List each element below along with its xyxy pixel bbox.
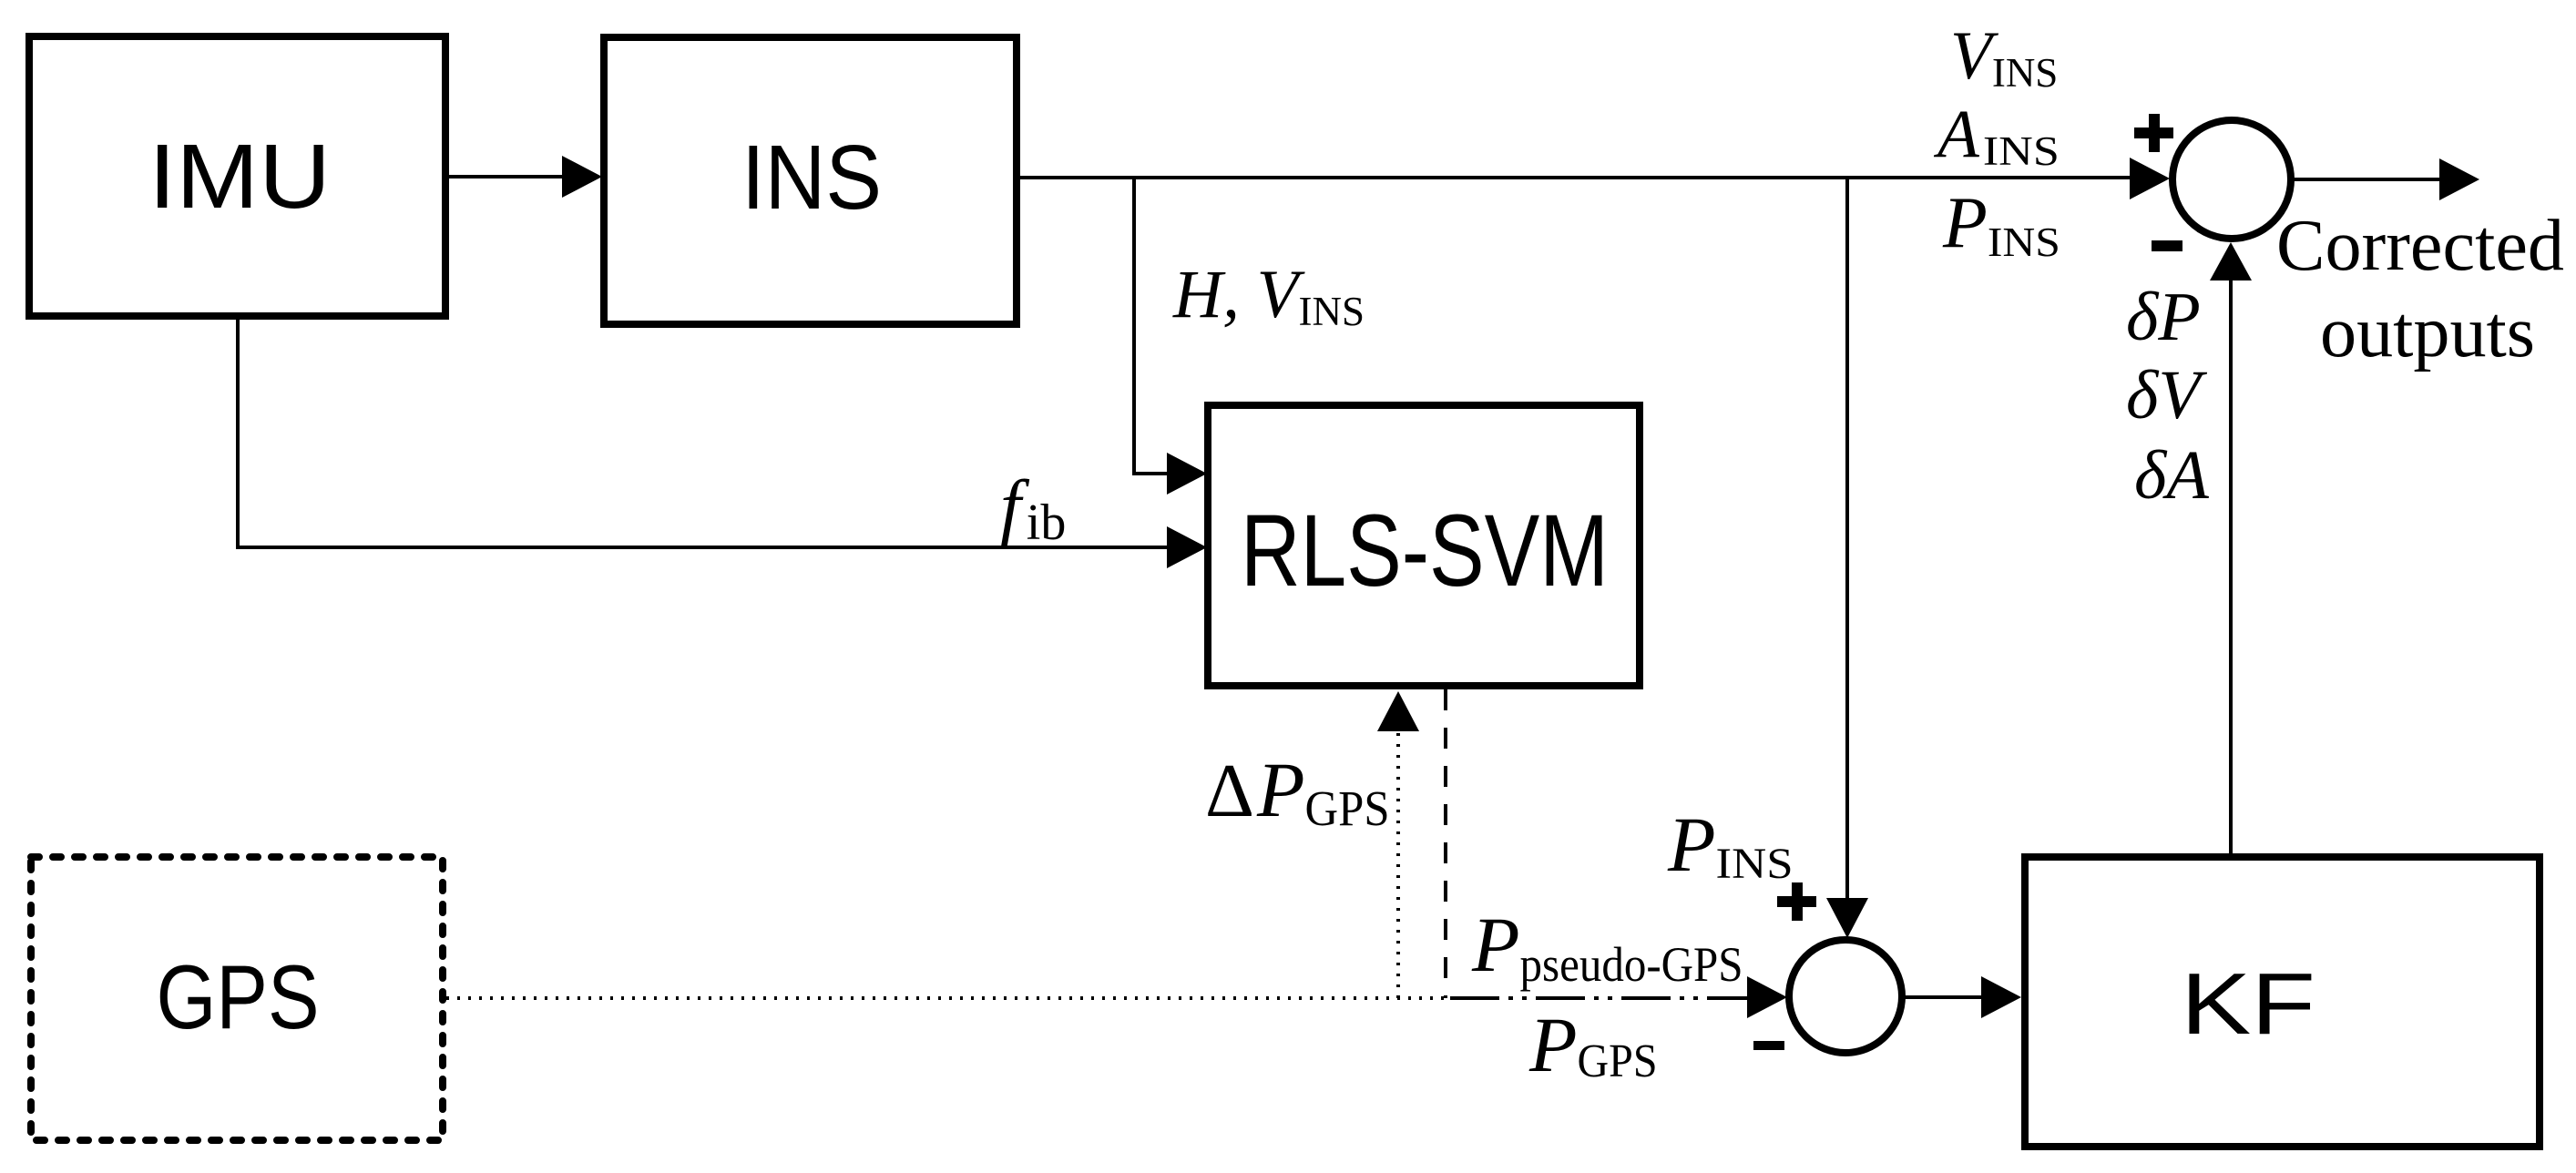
wire KF feedback up to sum junction 1: [2229, 279, 2233, 853]
svg-text:δV: δV: [2126, 357, 2207, 433]
arrowhead into sum junction 1: [2130, 158, 2170, 199]
wire GPS dotted to junction: [446, 996, 1450, 1000]
svg-text:KF: KF: [2181, 955, 2315, 1053]
arrowhead into INS: [562, 156, 602, 198]
wire sum junction 2 to KF: [1902, 995, 1983, 999]
svg-text:INS: INS: [741, 127, 882, 229]
arrowhead into RLS-SVM bottom: [1377, 691, 1419, 731]
wire IMU to INS: [449, 175, 565, 178]
svg-text:RLS-SVM: RLS-SVM: [1241, 494, 1609, 607]
minus sign sum junction 2: [1753, 1041, 1784, 1050]
minus sign sum junction 1: [2152, 240, 2182, 251]
sum junction 1: [2172, 120, 2291, 239]
svg-text:δP: δP: [2126, 279, 2201, 355]
block IMU: [29, 36, 445, 316]
svg-text:δA: δA: [2134, 437, 2209, 514]
plus sign sum junction 2: [1777, 882, 1816, 921]
arrowhead into sum junction 2 top: [1826, 898, 1868, 938]
block GPS (dashed): [31, 857, 443, 1140]
sum junction 2: [1789, 940, 1902, 1053]
arrowhead into sum junction 2 left: [1747, 976, 1787, 1018]
wire P_INS branch down to sum junction 2: [1845, 178, 1849, 902]
block RLS-SVM: [1208, 405, 1640, 686]
arrowhead output: [2439, 158, 2479, 200]
wire dotted delta P GPS up to RLS-SVM: [1396, 729, 1400, 998]
block KF: [2025, 857, 2540, 1147]
svg-text:outputs: outputs: [2320, 292, 2535, 372]
wire f_ib from IMU bottom to RLS-SVM: [238, 320, 1171, 547]
svg-text:GPS: GPS: [157, 946, 320, 1047]
arrowhead into RLS-SVM lower input: [1167, 526, 1207, 568]
svg-text:IMU: IMU: [148, 126, 331, 228]
svg-text:Corrected: Corrected: [2276, 206, 2564, 286]
wire INS to sum junction 1: [1020, 176, 2131, 179]
arrowhead into KF: [1981, 976, 2021, 1018]
arrowhead into RLS-SVM upper input: [1167, 453, 1207, 495]
wire branch H,V down to RLS-SVM: [1134, 178, 1171, 474]
wire pseudo-GPS dash-dot to sum junction 2: [1450, 996, 1747, 1000]
wire sum junction 1 output: [2291, 178, 2441, 181]
plus sign sum junction 1: [2134, 114, 2173, 152]
arrowhead into sum junction 1 bottom: [2210, 242, 2252, 280]
wire dashed pseudo-GPS vertical: [1444, 689, 1447, 998]
block INS: [604, 37, 1017, 324]
